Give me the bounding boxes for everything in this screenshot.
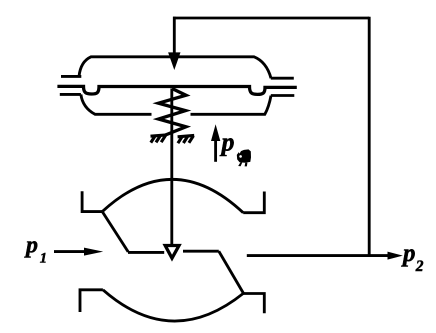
valve seat line left <box>128 251 164 254</box>
valve body upper-right flange bracket <box>243 192 264 213</box>
label p1 <box>24 233 47 267</box>
flange stub lower left <box>60 93 81 96</box>
valve plug (open triangle) <box>165 246 179 259</box>
spring <box>159 89 187 136</box>
arrow p-feedback-input shaft <box>214 140 217 162</box>
valve seat line right <box>183 250 219 253</box>
label p-feedback-input <box>220 128 235 157</box>
valve stem <box>170 89 173 245</box>
svg-text:p: p <box>24 233 38 259</box>
valve body upper-left flange bracket <box>82 191 102 211</box>
wire feedback right vertical <box>368 17 371 257</box>
diaphragm actuator lower shell <box>81 94 271 114</box>
flange stub upper left <box>61 75 81 78</box>
valve body upper bonnet arc <box>102 179 243 212</box>
arrowhead feedback into chamber <box>168 52 180 70</box>
flange stub lower right <box>271 94 295 97</box>
wire feedback top horizontal <box>173 17 369 20</box>
arrowhead p-feedback-input <box>211 124 220 141</box>
arrowhead inlet p1 <box>84 248 103 256</box>
svg-text:p: p <box>401 240 416 267</box>
valve body inlet upper diagonal wall <box>102 212 128 252</box>
diaphragm membrane line with convolutions <box>57 86 296 94</box>
wire inlet p1 line <box>54 250 86 253</box>
fixed support hatch right <box>178 135 195 143</box>
flange stub upper right <box>271 77 294 80</box>
fixed support hatch left <box>151 135 167 143</box>
svg-text:p: p <box>220 128 235 157</box>
wire feedback arrow shaft into upper chamber <box>173 17 176 54</box>
diaphragm actuator upper shell <box>79 57 271 78</box>
arrowhead outlet p2 <box>388 252 403 260</box>
svg-text:1: 1 <box>40 251 47 267</box>
valve body lower arc <box>103 290 244 321</box>
valve body lower-right flange bracket <box>243 294 264 314</box>
label subscript CJK blob <box>237 149 251 166</box>
valve body lower-left flange bracket <box>80 290 103 312</box>
svg-text:2: 2 <box>415 258 424 275</box>
wire outlet p2 line <box>247 254 389 257</box>
valve body outlet diagonal wall <box>219 251 244 293</box>
label p2 <box>401 240 424 275</box>
